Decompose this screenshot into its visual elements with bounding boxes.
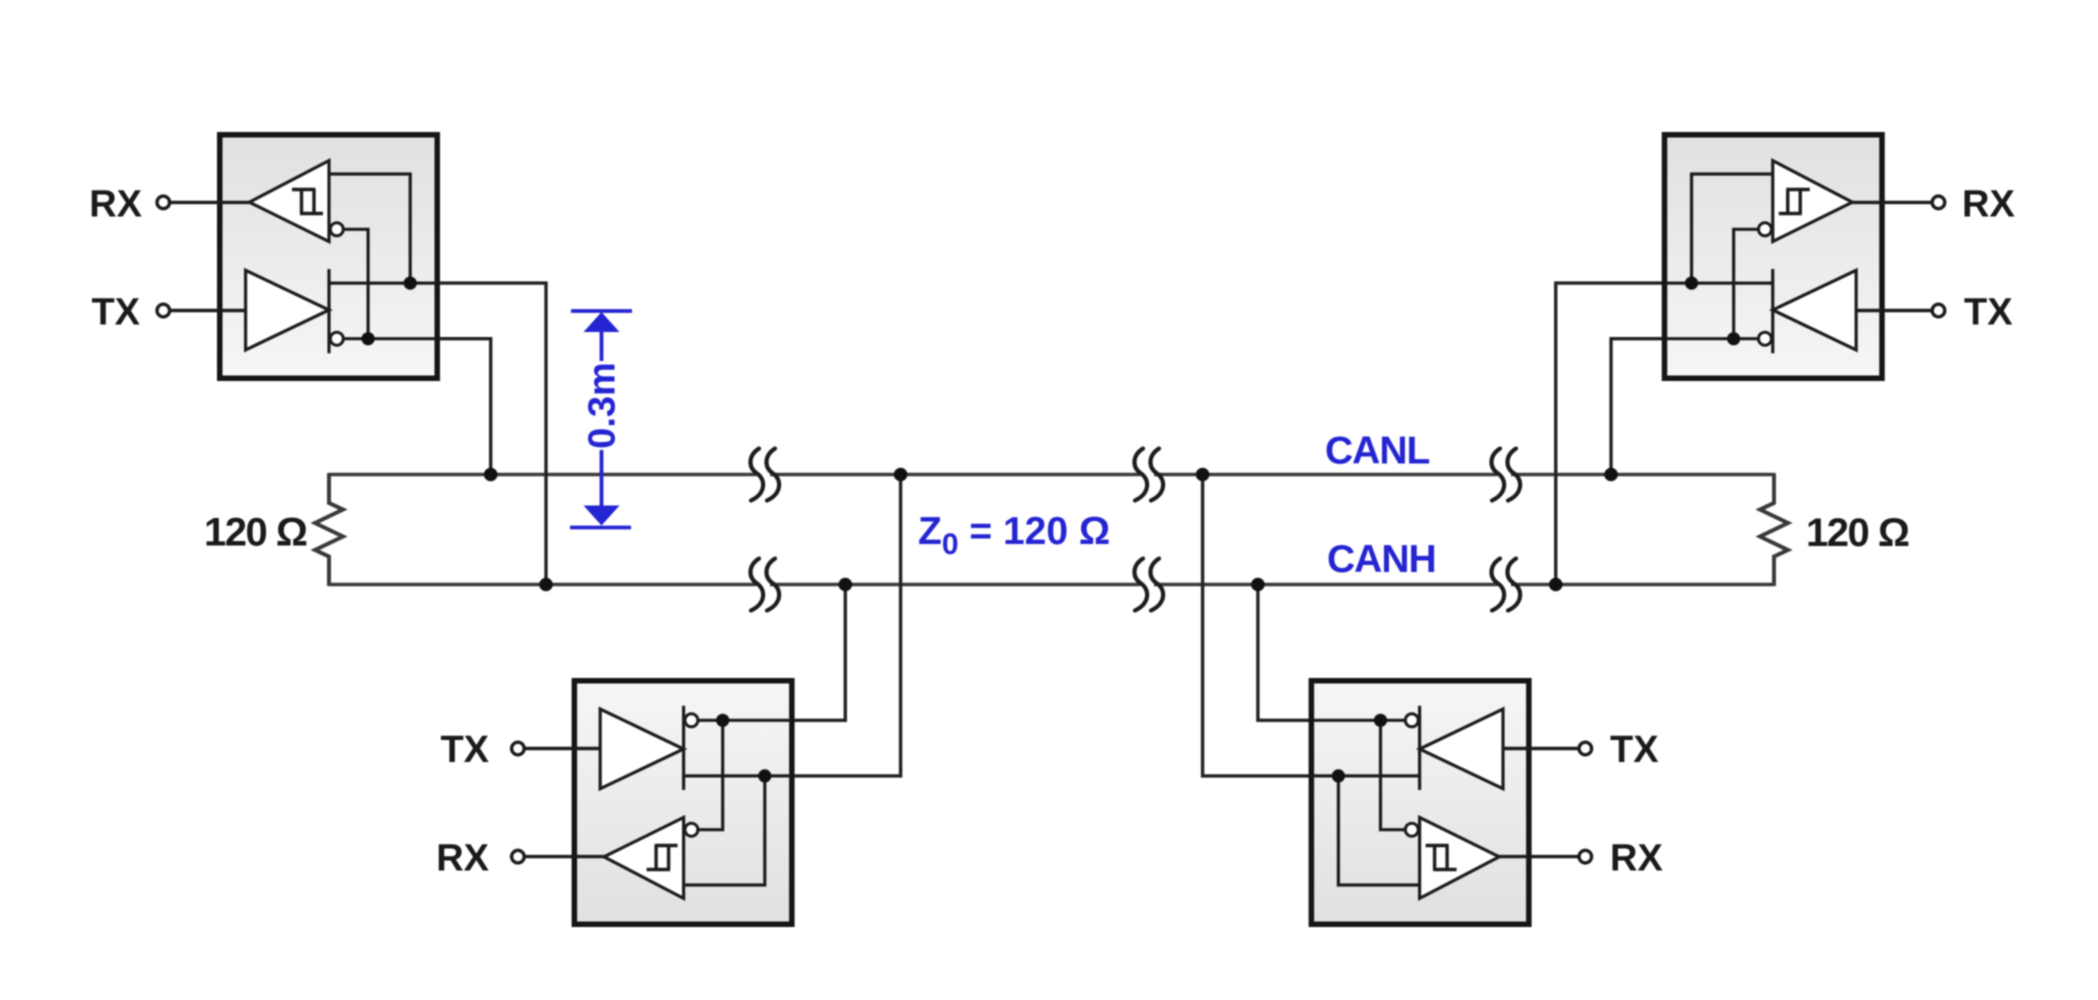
svg-text:0.3m: 0.3m — [582, 362, 624, 449]
svg-text:RX: RX — [1610, 838, 1663, 880]
svg-text:TX: TX — [1964, 292, 2013, 334]
svg-text:RX: RX — [1962, 184, 2015, 226]
svg-text:Z0 = 120 Ω: Z0 = 120 Ω — [918, 510, 1110, 561]
svg-text:120 Ω: 120 Ω — [204, 511, 307, 555]
svg-text:TX: TX — [440, 729, 489, 771]
svg-text:CANL: CANL — [1325, 430, 1429, 473]
svg-text:RX: RX — [89, 184, 142, 226]
svg-text:CANH: CANH — [1327, 538, 1436, 581]
svg-text:TX: TX — [1610, 729, 1659, 771]
svg-text:120 Ω: 120 Ω — [1806, 511, 1909, 555]
svg-text:RX: RX — [436, 838, 489, 880]
svg-text:TX: TX — [91, 292, 140, 334]
